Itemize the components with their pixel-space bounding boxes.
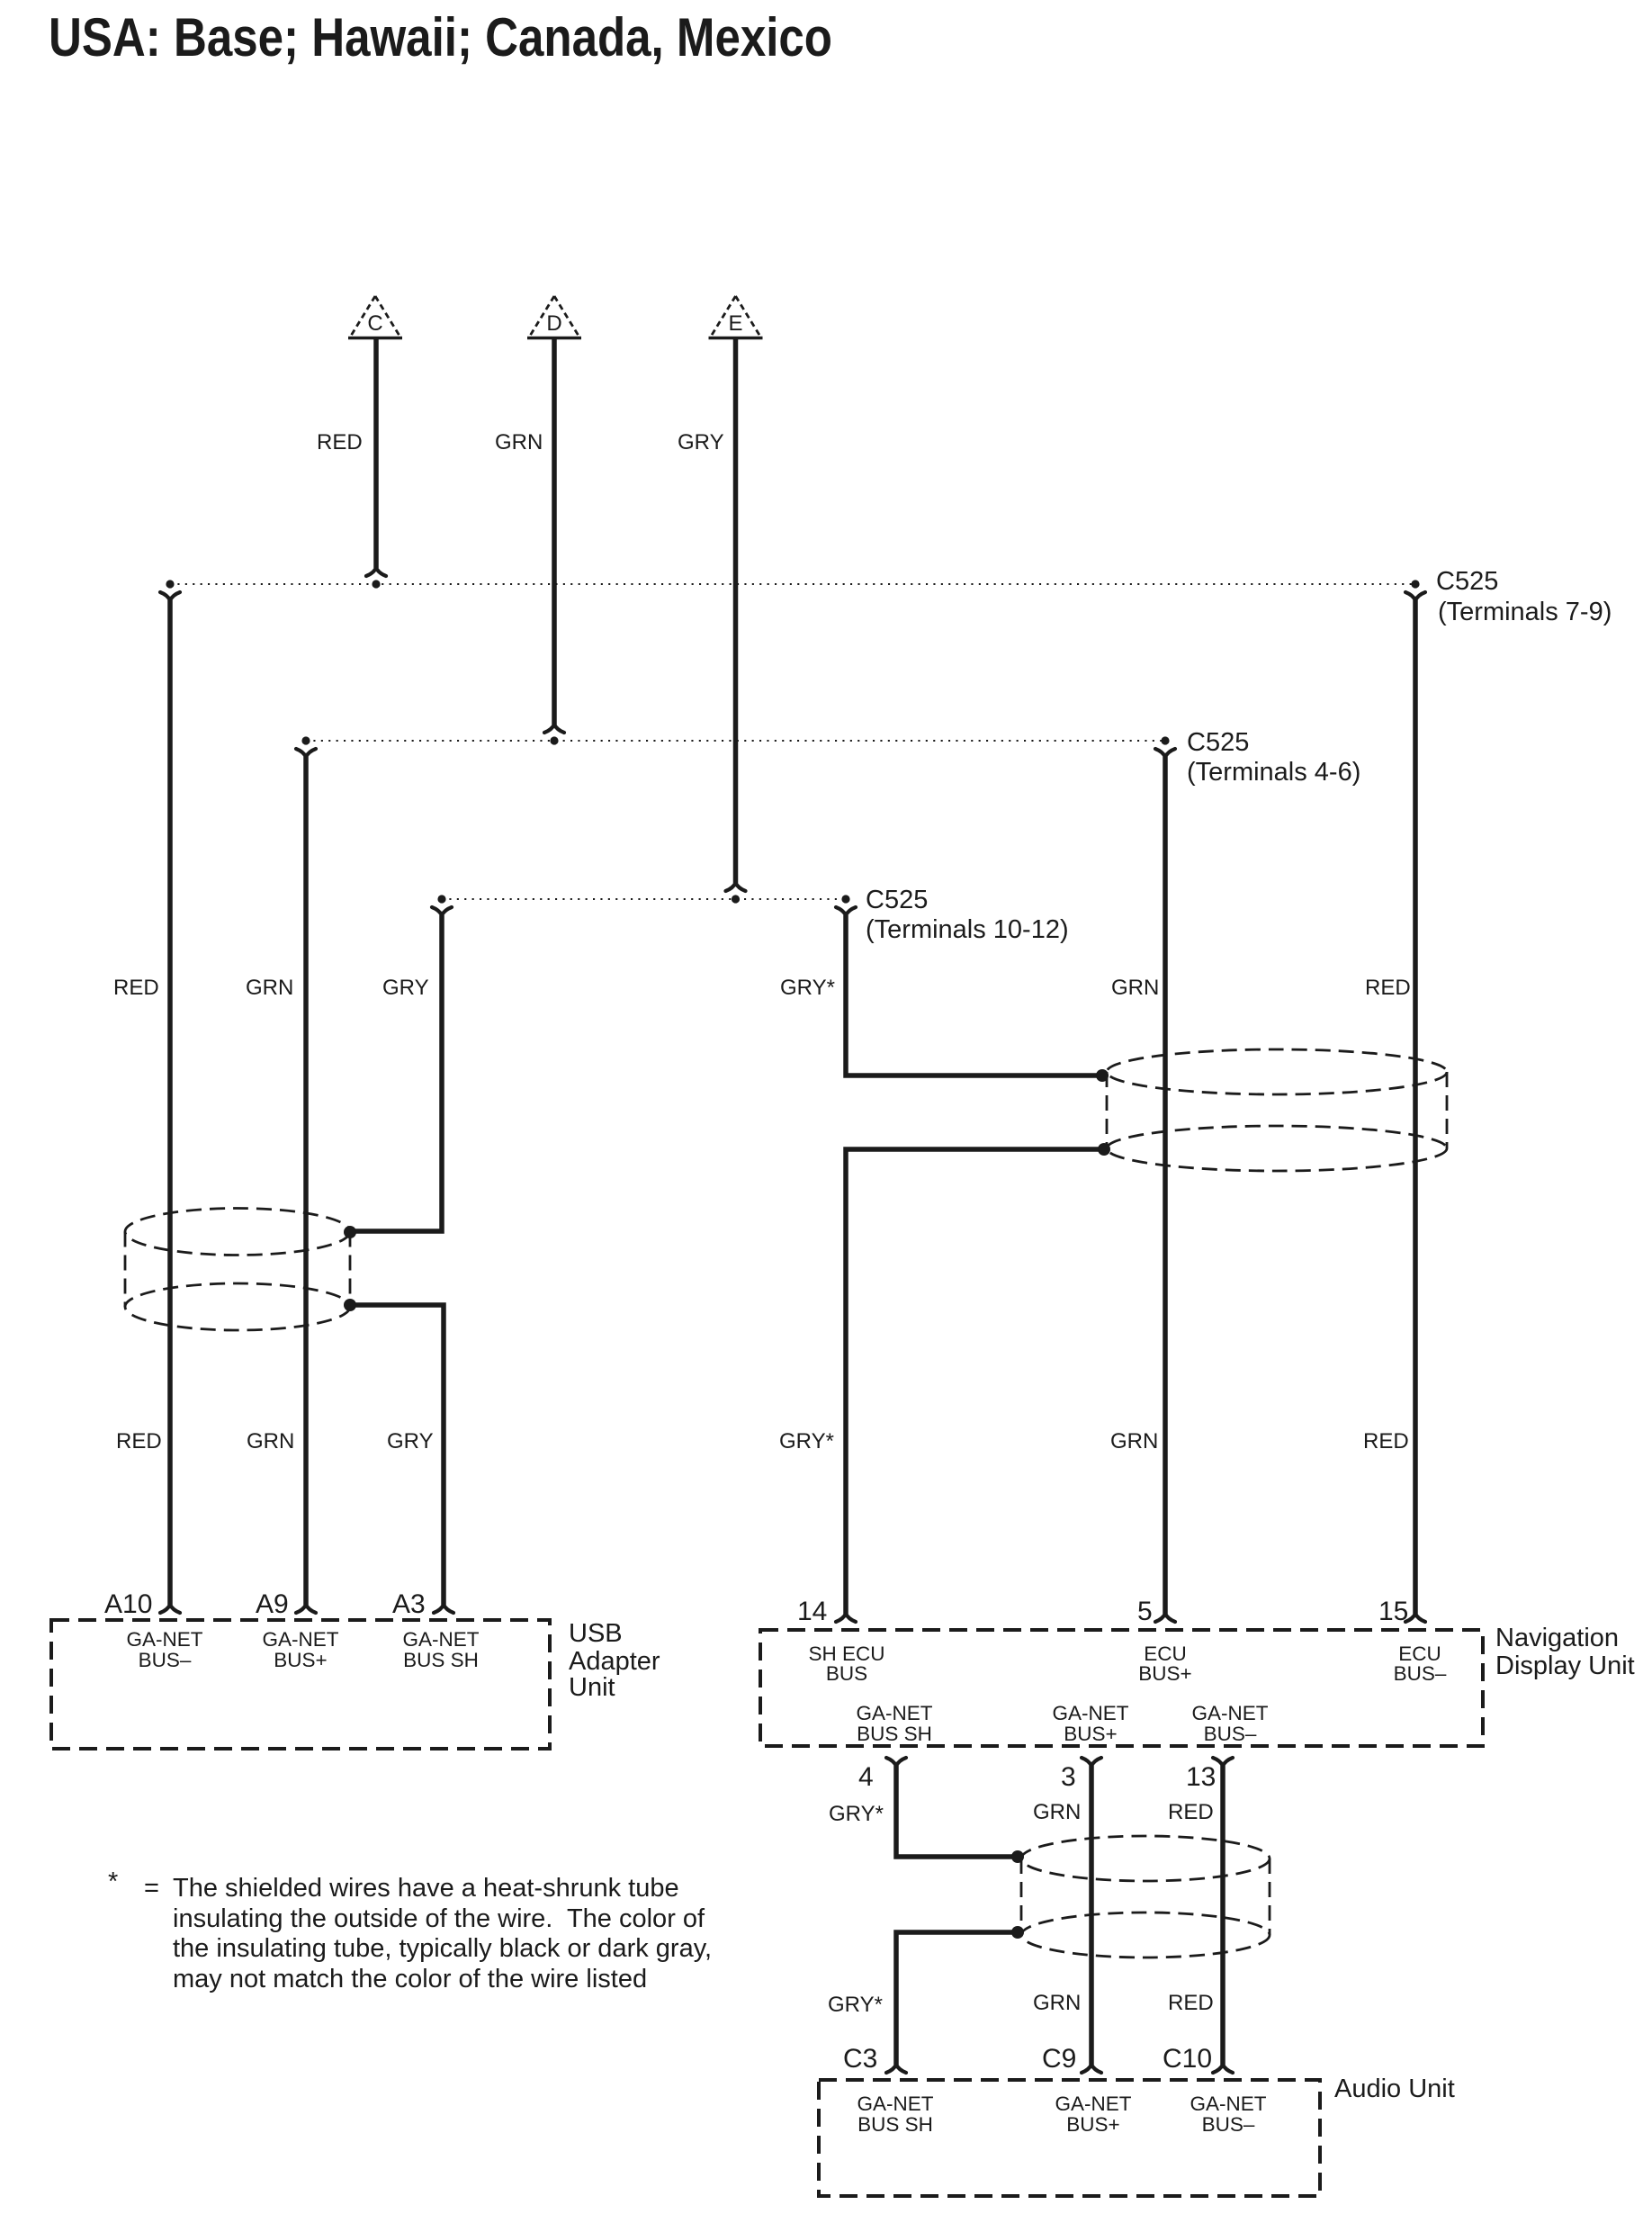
Audio Unit box <box>819 2080 1320 2196</box>
svg-text:(Terminals 10-12): (Terminals 10-12) <box>866 915 1069 944</box>
svg-text:C525: C525 <box>1436 567 1498 596</box>
svg-text:GA-NET: GA-NET <box>1190 2092 1266 2115</box>
svg-text:A10: A10 <box>104 1589 152 1619</box>
svg-text:=: = <box>144 1874 159 1903</box>
svg-text:BUS–: BUS– <box>139 1649 192 1671</box>
svg-text:GRY*: GRY* <box>779 1429 834 1453</box>
svg-text:4: 4 <box>858 1762 874 1792</box>
Nav box terminal names top row <box>808 1642 1446 1685</box>
svg-text:GRN: GRN <box>1111 976 1159 1000</box>
svg-text:C525: C525 <box>1187 728 1249 757</box>
svg-text:GRN: GRN <box>1033 1800 1081 1824</box>
svg-text:Navigation: Navigation <box>1495 1624 1619 1652</box>
wire RED left (to USB A10) <box>160 592 180 1613</box>
svg-text:RED: RED <box>1365 976 1411 1000</box>
connector triangle D <box>527 296 581 338</box>
svg-text:GRY: GRY <box>678 430 724 454</box>
svg-text:BUS–: BUS– <box>1394 1662 1447 1685</box>
junction line C525 terminals 10-12 <box>437 895 849 903</box>
svg-text:3: 3 <box>1061 1762 1076 1792</box>
svg-text:BUS+: BUS+ <box>274 1649 327 1671</box>
svg-text:GA-NET: GA-NET <box>1191 1702 1268 1724</box>
svg-text:C525: C525 <box>866 886 928 914</box>
svg-text:GA-NET: GA-NET <box>126 1628 202 1651</box>
svg-text:GA-NET: GA-NET <box>857 2092 933 2115</box>
svg-text:GRY*: GRY* <box>829 1802 884 1826</box>
wire GRY* nav pin4 to audio C3 (through shield) <box>886 1758 1018 2073</box>
shield drum left (USB cable shield) <box>125 1209 356 1331</box>
svg-text:GA-NET: GA-NET <box>1055 2092 1131 2115</box>
svg-text:RED: RED <box>113 976 159 1000</box>
label C525 (Terminals 7-9) <box>1436 567 1612 626</box>
USB Adapter Unit box <box>51 1620 550 1749</box>
label C525 (Terminals 4-6) <box>1187 728 1360 787</box>
svg-text:5: 5 <box>1137 1597 1153 1626</box>
Navigation Display Unit box <box>760 1630 1483 1746</box>
svg-text:BUS+: BUS+ <box>1066 2113 1119 2136</box>
svg-text:BUS SH: BUS SH <box>857 2113 933 2136</box>
svg-text:(Terminals 4-6): (Terminals 4-6) <box>1187 758 1360 787</box>
svg-text:GRN: GRN <box>247 1429 294 1453</box>
Audio box terminal names <box>857 2092 1266 2136</box>
wire E (GRY) from triangle E down to C525 junction <box>726 338 746 891</box>
Nav box terminal names bottom row <box>856 1702 1268 1745</box>
wire RED right (to Nav pin 15) <box>1405 592 1425 1622</box>
svg-text:GRN: GRN <box>246 976 293 1000</box>
svg-text:Display Unit: Display Unit <box>1495 1651 1635 1680</box>
svg-text:A3: A3 <box>392 1589 426 1619</box>
svg-text:GRN: GRN <box>1110 1429 1158 1453</box>
svg-text:GRN: GRN <box>1033 1991 1081 2015</box>
svg-text:The shielded wires have a heat: The shielded wires have a heat-shrunk tu… <box>173 1874 679 1903</box>
svg-text:GRY*: GRY* <box>828 1993 883 2017</box>
svg-text:GA-NET: GA-NET <box>262 1628 338 1651</box>
shield drum right (Nav cable shield) <box>1096 1049 1447 1171</box>
svg-text:GRY*: GRY* <box>780 976 835 1000</box>
svg-text:Adapter: Adapter <box>569 1647 660 1676</box>
label Navigation Display Unit <box>1495 1624 1635 1680</box>
connector triangle E <box>709 296 763 338</box>
svg-text:GA-NET: GA-NET <box>1052 1702 1128 1724</box>
wire GRN right (to Nav pin 5) <box>1155 749 1175 1622</box>
svg-text:13: 13 <box>1186 1762 1216 1792</box>
svg-text:BUS+: BUS+ <box>1138 1662 1191 1685</box>
wire RED nav pin13 to audio C10 <box>1213 1758 1233 2073</box>
svg-text:GA-NET: GA-NET <box>856 1702 932 1724</box>
svg-text:D: D <box>546 311 561 336</box>
shield drum audio cable <box>1011 1836 1270 1957</box>
svg-text:C: C <box>367 311 382 336</box>
note about shielded wires <box>108 1867 712 1993</box>
svg-text:USA: Base; Hawaii; Canada, Mex: USA: Base; Hawaii; Canada, Mexico <box>49 7 832 67</box>
svg-text:BUS SH: BUS SH <box>857 1723 932 1745</box>
svg-text:E: E <box>728 311 742 336</box>
svg-text:GRN: GRN <box>495 430 543 454</box>
svg-text:the insulating tube, typically: the insulating tube, typically black or … <box>173 1934 712 1963</box>
svg-text:C3: C3 <box>843 2044 877 2074</box>
svg-text:may not match the color of the: may not match the color of the wire list… <box>173 1965 647 1993</box>
svg-text:USB: USB <box>569 1619 623 1648</box>
wire GRY left (to USB A3, through shield) <box>350 907 453 1613</box>
wire C (RED) from triangle C down to C525 junction <box>366 338 386 576</box>
junction line C525 terminals 4-6 <box>301 736 1169 744</box>
svg-text:14: 14 <box>797 1597 827 1626</box>
label USB Adapter Unit <box>569 1619 660 1702</box>
svg-text:BUS+: BUS+ <box>1064 1723 1117 1745</box>
svg-text:BUS–: BUS– <box>1204 1723 1257 1745</box>
svg-text:GRY: GRY <box>387 1429 434 1453</box>
svg-text:GRY: GRY <box>382 976 429 1000</box>
connector triangle C <box>348 296 402 338</box>
svg-text:RED: RED <box>1168 1800 1214 1824</box>
svg-text:C9: C9 <box>1042 2044 1076 2074</box>
svg-text:RED: RED <box>317 430 363 454</box>
svg-text:Audio Unit: Audio Unit <box>1334 2074 1455 2103</box>
svg-text:C10: C10 <box>1163 2044 1212 2074</box>
svg-text:15: 15 <box>1378 1597 1408 1626</box>
svg-text:BUS: BUS <box>826 1662 867 1685</box>
svg-text:A9: A9 <box>256 1589 289 1619</box>
wire GRY* right (to Nav pin 14, through shield) <box>836 907 1104 1622</box>
svg-text:insulating the outside of the: insulating the outside of the wire. The … <box>173 1904 705 1933</box>
svg-text:GA-NET: GA-NET <box>402 1628 479 1651</box>
svg-text:RED: RED <box>1363 1429 1409 1453</box>
svg-text:*: * <box>108 1867 118 1896</box>
svg-text:Unit: Unit <box>569 1673 615 1702</box>
svg-text:RED: RED <box>1168 1991 1214 2015</box>
USB box terminal names <box>126 1628 479 1671</box>
svg-text:BUS–: BUS– <box>1202 2113 1255 2136</box>
svg-text:(Terminals 7-9): (Terminals 7-9) <box>1438 598 1612 626</box>
wire GRN left (to USB A9) <box>296 749 316 1613</box>
svg-text:RED: RED <box>116 1429 162 1453</box>
svg-text:BUS SH: BUS SH <box>403 1649 479 1671</box>
junction line C525 terminals 7-9 <box>166 580 1419 588</box>
label C525 (Terminals 10-12) <box>866 886 1069 944</box>
wire GRN nav pin3 to audio C9 <box>1082 1758 1101 2073</box>
wire D (GRN) from triangle D down to C525 junction <box>544 338 564 733</box>
